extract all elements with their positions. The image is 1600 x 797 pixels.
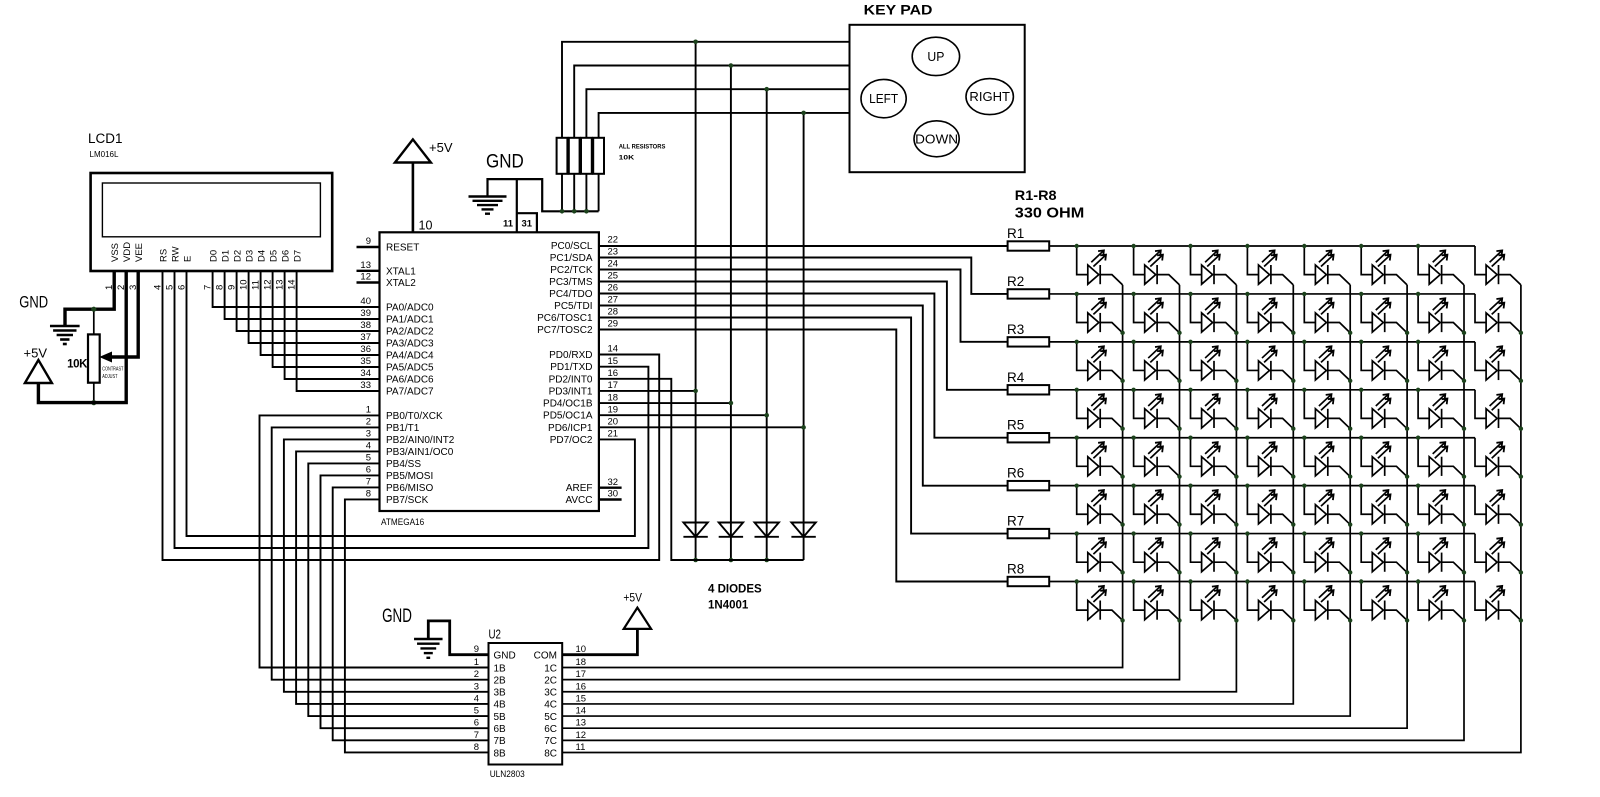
node row2 col6 anode junction [1359,292,1363,296]
wire LCD D6 to PA6 [285,271,380,379]
node row8 col6 anode junction [1359,579,1363,583]
LED matrix row8 col4 [1247,582,1293,621]
resistor R4 330 ohm [1007,370,1049,395]
LED matrix row6 col5 [1304,486,1350,525]
svg-text:PA1/ADC1: PA1/ADC1 [386,315,434,326]
pin 9 RESET stub [357,246,380,248]
node keypad junction [764,87,769,92]
LED matrix row3 col2 [1134,342,1180,381]
R1-R8 330 OHM label [1015,187,1085,222]
svg-text:4B: 4B [494,700,507,711]
node row5 col2 anode junction [1131,436,1135,440]
svg-text:16: 16 [608,368,619,379]
LED matrix row2 col7 [1418,294,1464,333]
svg-text:PC4/TDO: PC4/TDO [549,289,593,300]
node column 6 row 2 cathode junction [1405,331,1409,335]
node column 5 row 8 cathode junction [1348,618,1352,622]
wire RP4 top to keypad row 4 [599,113,850,138]
node row2 col7 anode junction [1416,292,1420,296]
power +5V symbol (U2 COM) [624,608,651,629]
keypad module box [850,25,1025,172]
power +5V symbol (LCD) [25,360,52,383]
wire PB4 pin5 to ULN2803 5B [308,463,488,716]
svg-text:8: 8 [366,489,371,500]
svg-text:16: 16 [576,681,587,692]
svg-text:PD5/OC1A: PD5/OC1A [543,411,593,422]
svg-text:PA0/ADC0: PA0/ADC0 [386,303,434,314]
wire RP2 bottom lead [573,174,575,212]
node column 6 row 3 cathode junction [1405,379,1409,383]
node row4 col7 anode junction [1416,388,1420,392]
LED matrix row2 col6 [1361,294,1407,333]
svg-text:PB0/T0/XCK: PB0/T0/XCK [386,411,443,422]
svg-text:7C: 7C [544,736,557,747]
node row2 col1 anode junction [1075,292,1079,296]
microcontroller U1 ATMEGA16 body [380,232,599,528]
svg-text:R8: R8 [1007,562,1024,577]
svg-text:6B: 6B [494,724,507,735]
node column 3 row 8 cathode junction [1234,618,1238,622]
svg-text:8B: 8B [494,748,507,759]
wire PD2 pin16 to diode common bus [599,379,804,560]
potentiometer 10K body [88,334,100,382]
svg-text:PC5/TDI: PC5/TDI [554,301,592,312]
wire LED column 5 cathode bus to ULN 5C [562,285,1350,716]
svg-text:2B: 2B [494,675,507,686]
svg-text:+5V: +5V [429,140,453,155]
pot wiper arrowhead [101,352,112,361]
svg-text:R1: R1 [1007,226,1024,241]
node column 2 row 7 cathode junction [1177,570,1181,574]
node column 7 row 2 cathode junction [1462,331,1466,335]
node column 1 row 4 cathode junction [1120,426,1124,430]
svg-text:3B: 3B [494,688,507,699]
svg-text:6: 6 [366,465,371,476]
svg-text:PC1/SDA: PC1/SDA [550,253,593,264]
svg-text:7: 7 [366,477,371,488]
wire PC5 pin27 to R6 [599,306,1008,486]
svg-text:XTAL2: XTAL2 [386,278,416,289]
resistor RP3 10k (keypad pull-up) [581,138,592,174]
wire keypad column 3 to PD5 and diode D3 [766,89,768,560]
node row6 col3 anode junction [1188,483,1192,487]
node column 4 row 8 cathode junction [1291,618,1295,622]
LED matrix row3 col7 [1418,342,1464,381]
node diode-bus junction [693,558,698,563]
wire LCD VEE pin3 to pot wiper [106,271,138,357]
LED matrix row3 col8 [1475,342,1521,381]
node row3 col6 anode junction [1359,340,1363,344]
node column 4 row 6 cathode junction [1291,522,1295,526]
ATMEGA right pin numbers [608,235,619,500]
svg-text:20: 20 [608,417,619,428]
node row2 col2 anode junction [1131,292,1135,296]
svg-text:RS: RS [158,249,169,262]
node row7 col2 anode junction [1131,531,1135,535]
node resistor-bus junction [560,209,565,214]
node column 8 row 4 cathode junction [1519,426,1523,430]
svg-text:D1: D1 [220,250,231,262]
svg-text:PB4/SS: PB4/SS [386,459,421,470]
pin 32 AREF stub [599,487,622,489]
node column 1 row 7 cathode junction [1120,570,1124,574]
svg-text:30: 30 [608,489,619,500]
node row3 col1 anode junction [1075,340,1079,344]
svg-text:ADJUST: ADJUST [102,374,118,380]
wire LED column 4 cathode bus to ULN 4C [562,285,1293,704]
wire pin 31 [517,213,537,232]
svg-text:ALL RESISTORS: ALL RESISTORS [619,144,666,151]
LED matrix row1 col3 [1191,246,1237,285]
svg-text:12: 12 [360,272,371,283]
svg-text:LEFT: LEFT [869,91,898,106]
svg-text:VDD: VDD [122,242,133,262]
svg-text:4: 4 [366,441,371,452]
node keypad junction [801,111,806,116]
node column 4 row 4 cathode junction [1291,426,1295,430]
svg-text:KEY PAD: KEY PAD [864,2,933,18]
LED matrix row4 col7 [1418,390,1464,429]
svg-text:COM: COM [534,650,557,661]
wire RP4 bottom lead [598,174,600,212]
wire PC0 pin22 to R1 [599,245,1008,247]
wire LCD VSS pin1 to ground [65,271,114,326]
node column 6 row 7 cathode junction [1405,570,1409,574]
wire PC4 pin26 to R5 [599,294,1008,438]
wire PD3 pin17 to keypad column 1 [599,390,696,392]
svg-text:2C: 2C [544,675,557,686]
LED matrix row7 col5 [1304,534,1350,573]
svg-text:LCD1: LCD1 [88,131,123,146]
keypad button DOWN [914,121,959,157]
node column 4 row 7 cathode junction [1291,570,1295,574]
ALL RESISTORS 10K label [619,144,666,162]
svg-text:R6: R6 [1007,466,1024,481]
keypad button RIGHT [966,79,1013,115]
svg-text:29: 29 [608,319,619,330]
node column 8 row 2 cathode junction [1519,331,1523,335]
svg-text:14: 14 [608,344,619,355]
svg-text:D0: D0 [208,250,219,262]
node row1 col4 anode junction [1245,244,1249,248]
svg-text:3: 3 [474,681,479,692]
wire PC3 pin25 to R4 [599,282,1008,390]
node column 1 row 6 cathode junction [1120,522,1124,526]
node column 6 row 5 cathode junction [1405,474,1409,478]
node column 3 row 5 cathode junction [1234,474,1238,478]
svg-text:15: 15 [576,693,587,704]
wire U2 COM pin10 to +5V [562,629,637,655]
node row3 col2 anode junction [1131,340,1135,344]
wire LED row 4 anode rail [1049,389,1475,391]
LED matrix row4 col3 [1191,390,1237,429]
keypad button LEFT [861,79,906,117]
svg-text:RESET: RESET [386,243,419,254]
node column 8 row 8 cathode junction [1519,618,1523,622]
svg-text:R7: R7 [1007,514,1024,529]
LED matrix row5 col6 [1361,438,1407,477]
svg-text:40: 40 [360,296,371,307]
node row7 col7 anode junction [1416,531,1420,535]
svg-text:36: 36 [360,344,371,355]
svg-text:PA7/ADC7: PA7/ADC7 [386,387,434,398]
resistor R5 330 ohm [1007,418,1049,443]
LED matrix row2 col1 [1077,294,1123,333]
svg-text:D7: D7 [292,250,303,262]
node row1 col6 anode junction [1359,244,1363,248]
node row4 col1 anode junction [1075,388,1079,392]
LED matrix row3 col4 [1247,342,1293,381]
wire PB0 pin1 to ULN2803 1B [260,415,489,667]
svg-text:4C: 4C [544,700,557,711]
wire +5V to ATMEGA pin 10 VCC [412,163,415,233]
4 DIODES 1N4001 label [708,584,762,612]
svg-text:PD2/INT0: PD2/INT0 [549,374,593,385]
wire PB3 pin4 to ULN2803 4B [296,451,488,704]
node row1 col2 anode junction [1131,244,1135,248]
LED matrix row1 col8 [1475,246,1521,285]
diode D3 1N4001 [755,523,779,537]
node row1 col5 anode junction [1302,244,1306,248]
node column 4 row 3 cathode junction [1291,379,1295,383]
node row2 col4 anode junction [1245,292,1249,296]
node column 7 row 6 cathode junction [1462,522,1466,526]
wire PB7 pin8 to ULN2803 8B [345,499,489,752]
ULN2803 pin numbers [474,644,586,753]
svg-text:DOWN: DOWN [915,131,958,146]
svg-text:PD3/INT1: PD3/INT1 [549,386,593,397]
svg-text:GND: GND [486,152,524,173]
ground symbol (ATMEGA top) [469,197,507,214]
node row5 col4 anode junction [1245,436,1249,440]
LED matrix row8 col5 [1304,582,1350,621]
LED matrix row1 col4 [1247,246,1293,285]
node row7 col4 anode junction [1245,531,1249,535]
wire keypad column 2 to PD4 and diode D2 [730,66,732,561]
node column 4 row 5 cathode junction [1291,474,1295,478]
svg-text:18: 18 [608,392,619,403]
svg-text:26: 26 [608,283,619,294]
svg-text:4: 4 [474,693,479,704]
svg-text:D4: D4 [256,250,267,262]
node resistor-bus junction [572,209,577,214]
node row1 col1 anode junction [1075,244,1079,248]
node row7 col5 anode junction [1302,531,1306,535]
svg-text:+5V: +5V [24,346,48,361]
wire PC7 pin29 to R8 [599,330,1008,582]
wire PC2 pin24 to R3 [599,270,1008,342]
wire pot top to VSS ground wire [93,309,95,334]
wire pot bottom to +5V rail [93,383,95,403]
node row7 col1 anode junction [1075,531,1079,535]
svg-text:UP: UP [927,49,944,64]
svg-text:XTAL1: XTAL1 [386,266,416,277]
wire PB6 pin7 to ULN2803 7B [333,487,489,740]
node column 5 row 2 cathode junction [1348,331,1352,335]
ATMEGA right pin names [537,241,593,506]
svg-text:GND: GND [494,650,516,661]
svg-text:38: 38 [360,320,371,331]
LED matrix row3 col5 [1304,342,1350,381]
wire RP3 bottom lead [585,174,587,212]
svg-text:5: 5 [474,706,479,717]
svg-text:VEE: VEE [134,243,145,262]
svg-text:4 DIODES: 4 DIODES [708,584,762,596]
node pot-top junction [91,307,96,312]
svg-text:PD4/OC1B: PD4/OC1B [543,399,593,410]
LED matrix row5 col5 [1304,438,1350,477]
LED matrix row4 col5 [1304,390,1350,429]
svg-text:ULN2803: ULN2803 [490,769,525,780]
node column 1 row 2 cathode junction [1120,331,1124,335]
svg-text:32: 32 [608,477,619,488]
svg-text:14: 14 [576,706,587,717]
wire RP2 top to keypad row 2 [574,66,849,138]
svg-text:R1-R8: R1-R8 [1015,187,1057,203]
wire PB1 pin2 to ULN2803 2B [272,427,489,679]
wire keypad column 4 to PD6 and diode D4 [803,113,805,560]
svg-text:5C: 5C [544,712,557,723]
svg-text:E: E [182,256,193,262]
node row5 col7 anode junction [1416,436,1420,440]
node diode-bus junction [764,558,769,563]
wire LCD D3 to PA3 [249,271,380,343]
node row3 col4 anode junction [1245,340,1249,344]
node row8 col4 anode junction [1245,579,1249,583]
wire PD1 pin15 to LCD RW [175,271,649,548]
node column 2 row 5 cathode junction [1177,474,1181,478]
node column 5 row 5 cathode junction [1348,474,1352,478]
LED matrix row6 col8 [1475,486,1521,525]
wire PD4 pin18 to keypad column 2 [599,402,731,404]
svg-text:GND: GND [382,606,412,627]
node row8 col2 anode junction [1131,579,1135,583]
node column 2 row 6 cathode junction [1177,522,1181,526]
pin 30 AVCC stub [599,498,622,500]
svg-text:10: 10 [419,219,433,233]
wire LED row 6 anode rail [1049,485,1475,487]
wire LCD D1 to PA1 [225,271,380,319]
svg-text:8C: 8C [544,748,557,759]
svg-text:37: 37 [360,332,371,343]
svg-text:PA5/ADC5: PA5/ADC5 [386,363,434,374]
LED matrix row2 col8 [1475,294,1521,333]
node row5 col1 anode junction [1075,436,1079,440]
LED matrix row5 col8 [1475,438,1521,477]
resistor R2 330 ohm [1007,274,1049,299]
svg-text:7B: 7B [494,736,507,747]
svg-text:PB1/T1: PB1/T1 [386,423,420,434]
svg-text:27: 27 [608,295,619,306]
svg-text:2: 2 [366,417,371,428]
svg-text:31: 31 [522,219,533,230]
node column 7 row 8 cathode junction [1462,618,1466,622]
resistor R3 330 ohm [1007,322,1049,347]
node column 3 row 7 cathode junction [1234,570,1238,574]
resistor RP2 10k (keypad pull-up) [569,138,580,174]
svg-text:LM016L: LM016L [90,150,119,159]
wire LCD D2 to PA2 [237,271,380,331]
node row4 col2 anode junction [1131,388,1135,392]
LED matrix row8 col8 [1475,582,1521,621]
svg-text:VSS: VSS [110,243,121,262]
node pot-bottom junction [91,400,96,405]
node row1 col3 anode junction [1188,244,1192,248]
svg-text:PD0/RXD: PD0/RXD [549,350,592,361]
svg-text:21: 21 [608,429,619,440]
svg-text:PB3/AIN1/OC0: PB3/AIN1/OC0 [386,447,454,458]
svg-text:12: 12 [576,730,587,741]
svg-text:2: 2 [474,669,479,680]
wire RP1 bottom lead [561,174,563,212]
wire LED row 5 anode rail [1049,437,1475,439]
ATMEGA left pin names [386,243,455,506]
LED matrix row8 col1 [1077,582,1123,621]
svg-text:PA6/ADC6: PA6/ADC6 [386,375,434,386]
LED matrix row4 col1 [1077,390,1123,429]
pin 12 XTAL2 stub [357,281,380,283]
LED matrix row5 col4 [1247,438,1293,477]
LED matrix row7 col8 [1475,534,1521,573]
svg-text:PA4/ADC4: PA4/ADC4 [386,351,434,362]
node column 8 row 3 cathode junction [1519,379,1523,383]
LED matrix row5 col1 [1077,438,1123,477]
wire LED row 1 anode rail [1049,245,1475,247]
svg-text:15: 15 [608,356,619,367]
node row6 col6 anode junction [1359,483,1363,487]
node column 5 row 7 cathode junction [1348,570,1352,574]
svg-text:28: 28 [608,307,619,318]
node column 3 row 2 cathode junction [1234,331,1238,335]
node resistor-bus junction [584,209,589,214]
node row6 col7 anode junction [1416,483,1420,487]
node column 3 row 6 cathode junction [1234,522,1238,526]
svg-text:33: 33 [360,380,371,391]
wire LED column 2 cathode bus to ULN 2C [562,285,1179,680]
node column 2 row 4 cathode junction [1177,426,1181,430]
svg-text:PD6/ICP1: PD6/ICP1 [548,423,593,434]
node row5 col6 anode junction [1359,436,1363,440]
wire LED row 3 anode rail [1049,341,1475,343]
svg-text:22: 22 [608,235,619,246]
diode D1 1N4001 [683,523,707,537]
svg-text:PC2/TCK: PC2/TCK [550,265,593,276]
LED matrix row4 col2 [1134,390,1180,429]
svg-text:18: 18 [576,657,587,668]
node keypad junction [693,40,698,45]
node column 5 row 3 cathode junction [1348,379,1352,383]
power +5V symbol (ATMEGA pin10) [395,139,431,162]
node diode-bus junction [729,558,734,563]
svg-text:D6: D6 [280,250,291,262]
LED matrix row2 col4 [1247,294,1293,333]
svg-text:PB2/AIN0/INT2: PB2/AIN0/INT2 [386,435,455,446]
svg-text:PD7/OC2: PD7/OC2 [550,435,593,446]
svg-text:6: 6 [474,718,479,729]
driver U2 ULN2803 body [489,628,563,781]
svg-text:1B: 1B [494,663,507,674]
node row6 col5 anode junction [1302,483,1306,487]
svg-text:34: 34 [360,368,371,379]
node column 7 row 7 cathode junction [1462,570,1466,574]
node column 1 row 5 cathode junction [1120,474,1124,478]
wire PB2 pin3 to ULN2803 3B [284,439,489,691]
ground symbol (LCD VSS) [50,326,80,344]
svg-text:PB6/MISO: PB6/MISO [386,483,433,494]
svg-text:1N4001: 1N4001 [708,600,749,612]
svg-text:GND: GND [19,294,48,312]
LED matrix row3 col6 [1361,342,1407,381]
